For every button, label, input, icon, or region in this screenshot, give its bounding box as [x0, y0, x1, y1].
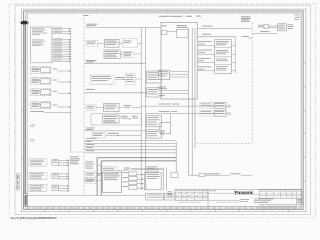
- svg-text:JVC_CS_TD05F_M_Rev_B.sps 2005/: JVC_CS_TD05F_M_Rev_B.sps 2005/04/07 10:1…: [11, 216, 57, 220]
- svg-text:Panasonic: Panasonic: [235, 190, 254, 195]
